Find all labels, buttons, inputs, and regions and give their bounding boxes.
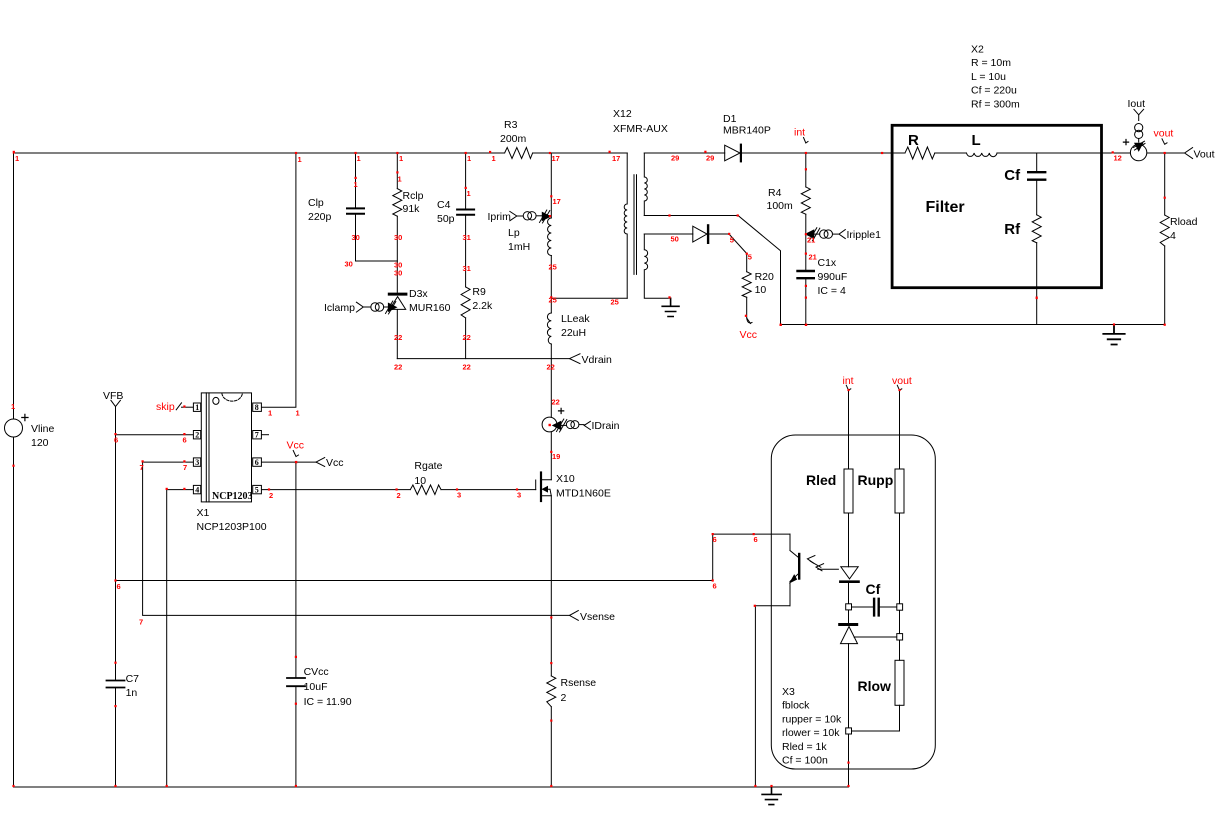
svg-text:220p: 220p <box>308 211 332 223</box>
svg-text:LLeak: LLeak <box>561 313 590 325</box>
wire Iout to vout node <box>1147 152 1185 154</box>
transformer X12 secondary top winding <box>644 153 647 216</box>
transformer X12 primary winding <box>624 153 627 298</box>
svg-text:vout: vout <box>1154 128 1174 140</box>
svg-text:Rgate: Rgate <box>414 460 442 472</box>
svg-text:120: 120 <box>31 437 49 449</box>
svg-text:22: 22 <box>394 333 402 342</box>
svg-text:3: 3 <box>457 491 461 500</box>
svg-text:29: 29 <box>706 154 714 163</box>
svg-text:1: 1 <box>296 409 300 418</box>
svg-text:Cf = 220u: Cf = 220u <box>971 85 1017 97</box>
capacitor Cf filter <box>1028 172 1045 180</box>
svg-text:R = 10m: R = 10m <box>971 57 1011 69</box>
svg-text:22uH: 22uH <box>561 327 586 339</box>
svg-text:Vcc: Vcc <box>287 440 305 452</box>
svg-text:Vout: Vout <box>1194 149 1215 161</box>
wire Lp top junction <box>550 153 552 218</box>
svg-text:200m: 200m <box>500 133 527 145</box>
transformer X12 core <box>634 175 637 275</box>
Vcc net tick pin6 <box>293 451 298 457</box>
svg-text:2: 2 <box>561 692 567 704</box>
wire pin2 to VFB <box>116 434 194 436</box>
svg-text:Rload: Rload <box>1170 216 1198 228</box>
svg-text:1: 1 <box>15 154 19 163</box>
svg-text:1: 1 <box>268 409 272 418</box>
wire feedback net horizontal <box>116 580 713 582</box>
skip net tick <box>176 403 181 410</box>
wire Vdrain horizontal <box>397 358 569 360</box>
Iout port chevron <box>1134 109 1144 115</box>
resistor Rsense <box>547 676 556 707</box>
X3 resistor Rlow body <box>895 660 904 705</box>
IC pin box 1 <box>193 403 200 411</box>
X3 pad bottom node <box>846 728 852 734</box>
svg-text:X2: X2 <box>971 44 984 56</box>
IC pin box 6 <box>253 458 262 466</box>
svg-text:7: 7 <box>183 463 187 472</box>
svg-text:17: 17 <box>612 154 620 163</box>
svg-text:Vcc: Vcc <box>326 457 344 469</box>
wire secondary top to D1 <box>644 152 724 154</box>
diode D1 <box>725 145 740 161</box>
svg-text:Filter: Filter <box>926 199 965 216</box>
svg-text:X12: X12 <box>613 108 632 120</box>
svg-text:vout: vout <box>892 375 912 387</box>
ground filter output <box>1103 325 1124 345</box>
wire lower pad to Rlow <box>899 640 901 660</box>
svg-text:Vsense: Vsense <box>580 611 615 623</box>
svg-text:17: 17 <box>553 197 561 206</box>
wire output bottom rail <box>781 324 1165 326</box>
svg-text:X3: X3 <box>782 686 795 698</box>
wire LED to Cf node pad <box>848 583 850 604</box>
svg-text:100m: 100m <box>767 200 794 212</box>
wire pin7 stub <box>261 434 268 436</box>
svg-text:Rlow: Rlow <box>858 678 892 694</box>
svg-text:31: 31 <box>463 233 471 242</box>
svg-text:int: int <box>843 375 854 387</box>
svg-text:30: 30 <box>394 233 402 242</box>
MOSFET X10 transistor <box>535 480 537 490</box>
svg-text:Rsense: Rsense <box>561 677 597 689</box>
resistor R20 <box>742 272 751 298</box>
svg-text:R: R <box>908 132 919 149</box>
svg-text:10: 10 <box>755 284 767 296</box>
svg-text:21: 21 <box>807 236 815 245</box>
resistor R filter <box>905 147 935 159</box>
svg-text:6: 6 <box>255 458 259 467</box>
svg-text:6: 6 <box>754 535 758 544</box>
svg-text:L = 10u: L = 10u <box>971 71 1006 83</box>
VFB port arrow <box>111 400 121 406</box>
svg-text:91k: 91k <box>403 203 421 215</box>
svg-text:Rupp: Rupp <box>858 472 894 488</box>
svg-text:1: 1 <box>467 189 471 198</box>
svg-text:MBR140P: MBR140P <box>723 125 771 137</box>
capacitor C7 <box>107 681 125 688</box>
wire opto collector drop <box>789 534 791 550</box>
svg-text:22: 22 <box>394 363 402 372</box>
svg-text:5: 5 <box>748 253 752 262</box>
wire X3 Cf right lead <box>880 606 897 608</box>
X3 pad Cf right <box>897 604 903 610</box>
X3 resistor Rled body <box>844 469 853 513</box>
svg-text:7: 7 <box>255 431 259 440</box>
int net tick X3 <box>846 385 851 390</box>
svg-text:1: 1 <box>398 175 402 184</box>
svg-text:29: 29 <box>671 154 679 163</box>
wire opto emitter horizontal <box>755 605 790 607</box>
opto transistor in X3 <box>798 554 800 579</box>
wire opto emitter to ground rail <box>754 606 756 787</box>
junction dots top rail <box>13 151 15 154</box>
inductor L filter <box>967 153 998 157</box>
inductor LLeak <box>547 313 551 344</box>
Vcc net tick R20 <box>747 318 752 323</box>
junction dots misc <box>355 177 357 179</box>
svg-text:VFB: VFB <box>103 390 123 402</box>
Iout probe circles and arrow <box>1138 115 1140 121</box>
IC pin box 4 <box>193 485 200 493</box>
wire Rload branch <box>1164 153 1166 325</box>
wire filter L to output <box>997 152 1130 154</box>
resistor Rf filter <box>1032 215 1041 243</box>
svg-text:Clp: Clp <box>308 197 324 209</box>
svg-text:21: 21 <box>809 253 817 262</box>
capacitor C1x <box>798 271 814 278</box>
svg-text:Cf: Cf <box>1004 167 1021 184</box>
wire Lp to LLeak node <box>550 256 552 314</box>
svg-text:30: 30 <box>345 260 353 269</box>
wire pin6 Vcc <box>261 461 316 463</box>
svg-text:25: 25 <box>549 263 557 272</box>
svg-text:3: 3 <box>195 458 199 467</box>
wire filter Cf Rf branch <box>1036 153 1038 325</box>
svg-text:8: 8 <box>255 403 259 412</box>
wire opto emitter drop <box>789 582 791 606</box>
svg-text:C7: C7 <box>126 673 140 685</box>
wire X3 Cf left lead <box>852 606 873 608</box>
svg-text:22: 22 <box>552 398 560 407</box>
wire top rail left segment <box>14 152 505 154</box>
svg-text:22: 22 <box>463 363 471 372</box>
wire D1 cathode to int node <box>742 152 890 154</box>
svg-text:int: int <box>794 127 805 139</box>
svg-text:R4: R4 <box>768 187 782 199</box>
capacitor C4 <box>457 210 474 215</box>
diode D3x <box>390 297 406 310</box>
resistor R4 <box>801 187 810 214</box>
wire LLeak bottom to Vdrain <box>550 344 552 359</box>
zener in X3 <box>841 627 858 644</box>
wire vout node down to X3 Rupp <box>899 390 901 469</box>
wire R9 bottom <box>465 318 467 359</box>
junction dots feedback nets <box>712 533 714 535</box>
wire VFB vertical <box>115 407 117 788</box>
junction dots bottom rail <box>12 785 14 787</box>
IC pin box 7 <box>253 431 262 439</box>
IDrain ammeter circle <box>542 417 557 432</box>
svg-text:31: 31 <box>463 264 471 273</box>
wire Vsense net <box>143 462 570 615</box>
svg-text:6: 6 <box>713 535 717 544</box>
wire pin1 skip stub <box>182 406 194 408</box>
svg-text:D3x: D3x <box>409 288 428 300</box>
X3 pad LED-Cf node <box>846 604 852 610</box>
resistor Rclp <box>393 189 402 217</box>
svg-text:Iout: Iout <box>1128 98 1146 110</box>
wire R4 branch <box>805 153 807 325</box>
IC pin box 2 <box>193 431 200 439</box>
svg-text:Vcc: Vcc <box>740 329 758 341</box>
inductor Lp <box>548 218 552 256</box>
svg-text:19: 19 <box>552 452 560 461</box>
ground X3 <box>762 787 781 805</box>
svg-text:X1: X1 <box>197 507 210 519</box>
wire int node down to X3 Rled <box>848 390 850 469</box>
svg-text:XFMR-AUX: XFMR-AUX <box>613 123 668 135</box>
capacitor Clp <box>347 208 364 213</box>
wire zener to bottom pad <box>848 644 850 728</box>
Vline source circle <box>5 419 23 437</box>
wire Vcc vertical to CVcc <box>295 462 297 787</box>
wire Rled to LED <box>848 513 850 567</box>
svg-text:1: 1 <box>195 403 199 412</box>
svg-text:1: 1 <box>298 155 302 164</box>
svg-text:4: 4 <box>1170 230 1176 242</box>
svg-text:1: 1 <box>354 180 358 189</box>
svg-text:6: 6 <box>183 436 187 445</box>
svg-text:1: 1 <box>467 154 471 163</box>
svg-text:5: 5 <box>730 236 734 245</box>
svg-text:C4: C4 <box>437 199 451 211</box>
svg-text:R9: R9 <box>472 286 486 298</box>
svg-text:1: 1 <box>492 154 496 163</box>
svg-text:IC = 4: IC = 4 <box>818 285 846 297</box>
svg-text:Cf: Cf <box>866 581 881 597</box>
svg-text:Vdrain: Vdrain <box>582 354 613 366</box>
svg-text:5: 5 <box>255 485 259 494</box>
IC pin box 5 <box>253 485 262 493</box>
wire MOSFET source down to Rsense and ground rail <box>550 496 552 787</box>
svg-text:10: 10 <box>414 475 426 487</box>
Vcc port arrow <box>316 458 325 467</box>
svg-text:25: 25 <box>611 298 619 307</box>
svg-text:IC = 11.90: IC = 11.90 <box>304 696 352 708</box>
svg-text:L: L <box>972 132 981 149</box>
Vdrain port arrow <box>570 354 581 364</box>
IC pin box 8 <box>253 403 262 411</box>
svg-text:R3: R3 <box>504 119 518 131</box>
wire opto collector horizontal <box>713 533 790 535</box>
svg-text:Iripple1: Iripple1 <box>847 229 882 241</box>
capacitor CVcc <box>287 678 305 686</box>
svg-text:Rf = 300m: Rf = 300m <box>971 98 1020 110</box>
wire IDrain to MOSFET drain <box>550 432 552 480</box>
Iout ammeter circle <box>1130 144 1146 160</box>
svg-text:rlower = 10k: rlower = 10k <box>782 727 840 739</box>
svg-text:2: 2 <box>269 491 273 500</box>
IDrain probe <box>553 421 561 429</box>
Iprim probe <box>510 211 517 220</box>
svg-text:1: 1 <box>357 154 361 163</box>
svg-text:Vline: Vline <box>31 423 55 435</box>
vout net tick top <box>1162 139 1167 145</box>
svg-text:Lp: Lp <box>508 227 520 239</box>
svg-text:50: 50 <box>671 235 679 244</box>
svg-text:1mH: 1mH <box>508 241 530 253</box>
wire R20 bottom to Vcc tick <box>747 297 751 323</box>
Iripple1 probe <box>806 230 814 238</box>
wire secondary aux to D2 <box>644 233 693 235</box>
svg-text:4: 4 <box>195 485 199 494</box>
svg-text:X10: X10 <box>556 473 575 485</box>
IC pin box 3 <box>193 458 200 466</box>
svg-text:7: 7 <box>139 618 143 627</box>
wire bottom ground rail <box>14 786 849 788</box>
wire Cf pad to lower pad <box>899 610 901 633</box>
wire D2 cathode to R20 <box>709 234 747 272</box>
wire left vertical to Vline top <box>13 153 15 419</box>
wire Rupp to Cf pad <box>899 513 901 604</box>
svg-text:990uF: 990uF <box>818 271 848 283</box>
wire X3 bottom pad to ground rail <box>848 734 850 787</box>
svg-text:6: 6 <box>117 582 121 591</box>
Vsense port arrow <box>570 611 579 621</box>
junction dots left column <box>12 465 14 467</box>
wire secondary mid tap horizontal <box>644 215 738 217</box>
svg-text:Rclp: Rclp <box>403 190 424 202</box>
svg-text:6: 6 <box>713 582 717 591</box>
svg-text:NCP1203: NCP1203 <box>212 491 253 502</box>
svg-text:Rf: Rf <box>1004 221 1021 238</box>
svg-text:1: 1 <box>11 402 15 411</box>
capacitor Cf X3 <box>874 599 879 616</box>
svg-text:6: 6 <box>114 436 118 445</box>
int net tick top <box>804 138 809 144</box>
ground transformer <box>662 298 679 316</box>
svg-text:22: 22 <box>547 363 555 372</box>
svg-text:IDrain: IDrain <box>592 420 620 432</box>
X3 pad divider node <box>897 634 903 640</box>
svg-text:CVcc: CVcc <box>304 666 329 678</box>
svg-text:Rled: Rled <box>806 472 836 488</box>
resistor Rload <box>1160 215 1169 246</box>
svg-text:2.2k: 2.2k <box>472 300 493 312</box>
diode D2 <box>693 226 707 242</box>
svg-text:3: 3 <box>517 491 521 500</box>
wire zener node to lower pad <box>854 636 897 638</box>
svg-text:D1: D1 <box>723 113 737 125</box>
svg-text:C1x: C1x <box>818 257 837 269</box>
wire Rclp branch top <box>396 153 398 292</box>
svg-text:2: 2 <box>397 491 401 500</box>
resistor R3 <box>505 148 533 159</box>
svg-text:skip: skip <box>156 401 175 413</box>
svg-text:1n: 1n <box>126 687 138 699</box>
svg-text:17: 17 <box>552 154 560 163</box>
wire filter input inside box <box>890 152 905 154</box>
svg-text:25: 25 <box>549 296 557 305</box>
junction dots IC pins <box>183 405 185 407</box>
wire D3x to Vdrain rail <box>396 309 398 358</box>
svg-text:Iprim: Iprim <box>488 211 512 223</box>
X3 resistor Rupp body <box>895 469 904 513</box>
NCP1203 IC body <box>201 393 251 502</box>
svg-text:7: 7 <box>140 463 144 472</box>
svg-text:fblock: fblock <box>782 700 810 712</box>
vout net tick X3 <box>897 385 902 390</box>
svg-text:NCP1203P100: NCP1203P100 <box>197 521 267 533</box>
svg-text:1: 1 <box>399 154 403 163</box>
wire pin5 gate drive <box>261 489 535 491</box>
svg-text:MTD1N60E: MTD1N60E <box>556 488 611 500</box>
Iclamp probe <box>356 302 363 312</box>
LED in X3 <box>841 567 858 579</box>
svg-text:50p: 50p <box>437 213 455 225</box>
svg-text:Cf = 100n: Cf = 100n <box>782 755 828 767</box>
wire C4 branch <box>465 153 467 287</box>
transformer X12 secondary aux winding <box>644 234 670 298</box>
wire top rail right of R3 to transformer primary <box>533 152 628 154</box>
resistor Rgate <box>410 485 441 495</box>
svg-text:rupper = 10k: rupper = 10k <box>782 713 842 725</box>
svg-text:2: 2 <box>195 431 199 440</box>
X3 fblock rounded box <box>771 435 935 769</box>
wire Vline bottom to ground rail <box>13 437 15 787</box>
svg-text:30: 30 <box>394 269 402 278</box>
wire Cf node to zener <box>848 610 850 623</box>
wire Rlow bottom return <box>852 705 900 731</box>
svg-text:10uF: 10uF <box>304 681 328 693</box>
wire pin8 HV vertical <box>261 153 296 407</box>
svg-text:22: 22 <box>463 333 471 342</box>
svg-text:Iclamp: Iclamp <box>324 302 355 314</box>
svg-text:30: 30 <box>352 233 360 242</box>
filter X2 block box <box>892 125 1101 287</box>
svg-text:Rled = 1k: Rled = 1k <box>782 741 827 753</box>
wire Clp branch <box>356 153 398 261</box>
svg-text:12: 12 <box>1114 154 1122 163</box>
wire feedback net riser <box>712 534 714 580</box>
wire Vdrain node to IDrain probe <box>550 359 552 418</box>
wire filter R to L <box>935 152 967 154</box>
IDrain plus sign <box>559 408 564 413</box>
opto light arrows <box>810 561 838 569</box>
junction dots X3 verticals <box>847 389 849 391</box>
Vout port arrow <box>1185 148 1193 159</box>
wire pin3 to feedback vertical <box>143 461 194 463</box>
wire mid tap diagonal <box>738 216 780 325</box>
R4 C1x marks <box>805 285 807 287</box>
wire primary bottom horizontal <box>551 297 627 299</box>
wire pin4 ground <box>167 490 194 787</box>
svg-text:MUR160: MUR160 <box>409 302 451 314</box>
resistor R9 <box>461 287 470 318</box>
svg-text:R20: R20 <box>755 271 774 283</box>
